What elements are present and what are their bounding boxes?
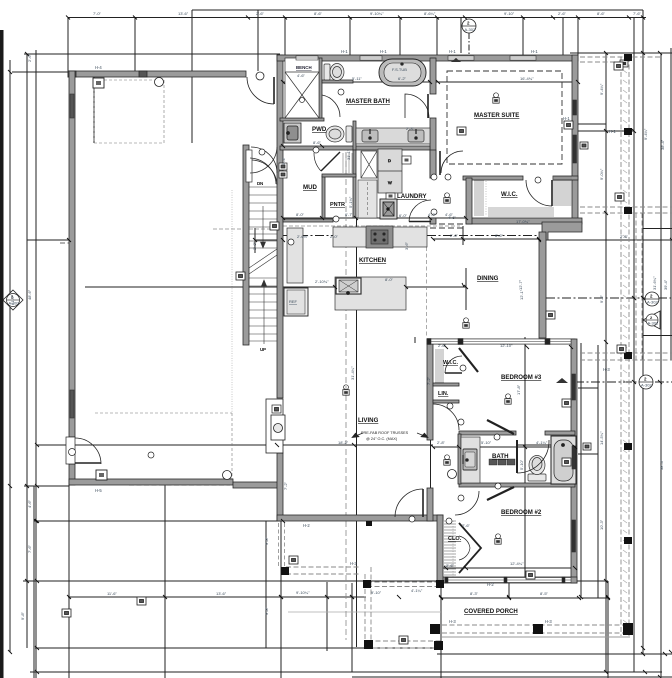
svg-text:9'-6": 9'-6": [599, 294, 604, 303]
svg-text:7'-6": 7'-6": [27, 544, 32, 553]
symbol fan dining: [463, 318, 469, 328]
wire kitchen dashed lines: [283, 225, 460, 227]
wall pntr left: [322, 176, 325, 218]
wall pntr top: [322, 174, 356, 177]
svg-text:H-1: H-1: [563, 116, 570, 121]
wall bedroom2 left / clo: [437, 515, 443, 583]
svg-text:DINING: DINING: [477, 275, 499, 282]
wall house top: [277, 55, 578, 61]
window top wall 2: [360, 56, 382, 60]
wall bath2 bottom: [459, 483, 575, 487]
door mud: [321, 152, 340, 171]
stairs break lines: [249, 249, 277, 268]
symbol fan bedroom2: [495, 534, 501, 544]
svg-text:H-3: H-3: [350, 561, 357, 566]
svg-text:7'-2": 7'-2": [283, 481, 288, 490]
svg-text:LIN.: LIN.: [438, 391, 449, 397]
svg-text:A-302: A-302: [641, 383, 652, 388]
svg-text:2'-6": 2'-6": [27, 53, 32, 62]
svg-text:BEDROOM #3: BEDROOM #3: [501, 374, 542, 381]
svg-text:H-2: H-2: [487, 582, 494, 587]
door stairs top 1: [251, 147, 277, 173]
wire living long line: [37, 444, 433, 446]
svg-text:2'-6": 2'-6": [256, 11, 265, 16]
svg-text:DN: DN: [257, 181, 263, 186]
svg-text:2'-0": 2'-0": [330, 234, 339, 239]
window bedroom2 south band: [447, 578, 571, 583]
svg-text:BENCH: BENCH: [296, 65, 312, 70]
wall lin top: [433, 383, 459, 386]
svg-text:H-1: H-1: [449, 49, 456, 54]
symbol posts bottom porch: [281, 54, 633, 650]
window msuite right wall: [573, 100, 577, 115]
svg-text:@ 24" O.C. (MAX): @ 24" O.C. (MAX): [366, 437, 398, 441]
svg-text:10'-3": 10'-3": [599, 519, 604, 530]
wall master suite right: [572, 55, 578, 226]
svg-text:17'-0¾": 17'-0¾": [516, 219, 530, 224]
window top wall 1: [296, 56, 318, 60]
svg-text:4'-1¼": 4'-1¼": [536, 440, 548, 445]
svg-text:H-1: H-1: [341, 49, 348, 54]
svg-text:4'-6": 4'-6": [448, 215, 457, 220]
svg-text:9'-8": 9'-8": [20, 611, 25, 620]
left page edge: [0, 30, 4, 678]
svg-text:5'-1¾": 5'-1¾": [348, 196, 353, 208]
symbol fan entry: [444, 193, 450, 203]
wall chamfer wic2: [459, 348, 478, 372]
svg-text:12'-10": 12'-10": [500, 343, 513, 348]
wall wic2 top: [427, 339, 461, 344]
fixture fridge: [284, 288, 308, 316]
svg-text:9'-0¼": 9'-0¼": [599, 168, 604, 180]
symbol circle garage top: [155, 78, 164, 87]
hatch wic1 left band: [474, 181, 484, 215]
wire bottom porch dashed band: [442, 624, 630, 626]
svg-text:2'-6": 2'-6": [462, 523, 471, 528]
svg-text:31'-1": 31'-1": [346, 149, 351, 160]
svg-text:H-1: H-1: [380, 49, 387, 54]
wall mbath/msuite divide: [430, 58, 436, 94]
svg-text:KITCHEN: KITCHEN: [359, 257, 386, 264]
fixture kitchen top counter: [333, 226, 427, 248]
svg-text:9'-10": 9'-10": [504, 11, 515, 16]
fixture mbath vanity: [356, 128, 430, 144]
svg-text:2'-6": 2'-6": [450, 233, 459, 238]
fixture bath2 tub: [551, 436, 576, 484]
svg-text:17'-8": 17'-8": [516, 384, 521, 395]
door bedroom3: [433, 404, 459, 430]
hatch porch right stipple: [623, 60, 627, 623]
svg-text:3'-6": 3'-6": [404, 241, 409, 250]
wire below-living dashed verticals: [278, 523, 280, 567]
stairs lower flight treads: [249, 278, 277, 341]
wire right center dashdot: [546, 297, 672, 299]
svg-text:7'-2": 7'-2": [426, 376, 431, 385]
svg-text:8'-6": 8'-6": [495, 233, 504, 238]
wire bottom mid verticals: [351, 583, 353, 672]
wire dashed opening kitchen-dining: [430, 223, 463, 225]
door msuite entry: [441, 151, 463, 173]
svg-text:UP: UP: [260, 347, 266, 352]
svg-text:W.I.C.: W.I.C.: [501, 191, 518, 198]
svg-text:MASTER BATH: MASTER BATH: [346, 98, 390, 105]
symbol right section markers: [645, 292, 659, 306]
svg-text:4'-6": 4'-6": [27, 499, 32, 508]
svg-text:9'-10¼": 9'-10¼": [370, 11, 384, 16]
wall garage bottom: [69, 479, 233, 485]
wall lin bottom: [433, 400, 459, 403]
tick left col: [8, 52, 39, 674]
wire master suite tray ceiling dashed: [447, 71, 562, 164]
window bedroom2 right wall: [572, 520, 576, 552]
wire kitchen dashdot: [283, 235, 539, 237]
wall toilet nook bottom: [322, 80, 353, 83]
svg-text:9'-4": 9'-4": [281, 156, 286, 165]
wall bath2 vanity side: [458, 434, 461, 484]
hatch wic2: [435, 350, 444, 382]
wire top center dashdot: [460, 18, 462, 54]
svg-text:39'-4": 39'-4": [663, 279, 668, 290]
svg-text:9'-4¼": 9'-4¼": [643, 128, 648, 140]
svg-text:BEDROOM #2: BEDROOM #2: [501, 509, 542, 516]
wall laundry right: [430, 150, 436, 178]
svg-text:REF: REF: [289, 299, 298, 304]
svg-text:13'-6": 13'-6": [178, 11, 189, 16]
wall pwd right: [353, 121, 356, 150]
wall wic1 left: [466, 178, 472, 224]
svg-text:H-4: H-4: [95, 65, 102, 70]
window garage left wall: [70, 94, 74, 118]
svg-text:A-302: A-302: [648, 321, 659, 326]
wire roof ridge dashed vertical: [345, 152, 347, 640]
hatch wic1 right shelves: [553, 177, 572, 205]
label pre-fab note: [361, 431, 409, 441]
svg-text:61'-7": 61'-7": [10, 294, 15, 305]
wall garage left upper: [69, 71, 75, 437]
svg-text:2'-8": 2'-8": [437, 440, 446, 445]
symbol fan bed3: [505, 394, 511, 404]
wall msuite south: [463, 176, 523, 180]
wire top extension verticals: [67, 18, 69, 72]
hatch mud lockers: [343, 153, 352, 173]
wire bottom-left dims: [33, 486, 35, 678]
window bedroom3 right wall: [572, 374, 576, 400]
wall chamfer bath sw: [487, 487, 514, 500]
wire left porch dashed: [286, 566, 360, 568]
wall hall/wic2 left: [427, 343, 433, 440]
svg-text:12'-4¼": 12'-4¼": [510, 561, 524, 566]
svg-text:CLO.: CLO.: [448, 536, 462, 542]
wire island dim line: [85, 286, 335, 288]
wall bath2 complex top: [459, 431, 516, 435]
wall bedroom2 bottom: [441, 577, 577, 583]
wall chamfer bath nw: [487, 420, 514, 434]
hatch wic1 bottom band: [489, 207, 553, 217]
svg-text:2'-6": 2'-6": [438, 343, 447, 348]
wire bedroom2 bottom dim: [441, 597, 581, 599]
door shower: [322, 95, 340, 117]
wire living bottom wall dashes: [290, 516, 440, 518]
wall living bottom: [277, 515, 443, 521]
window bath2 right wall: [572, 446, 576, 469]
door laundry: [409, 221, 431, 223]
svg-text:8'-6¼": 8'-6¼": [424, 11, 436, 16]
wall garage top: [68, 71, 246, 77]
wall wic bottom: [466, 218, 582, 224]
fixture pwd sink: [284, 123, 301, 143]
svg-text:13'-6": 13'-6": [216, 591, 227, 596]
svg-text:2'-3": 2'-3": [406, 126, 415, 131]
svg-text:2'-6½": 2'-6½": [297, 234, 309, 239]
svg-text:8'-6": 8'-6": [313, 140, 322, 145]
door mbath entry: [405, 94, 429, 118]
svg-text:31'-6¼": 31'-6¼": [652, 276, 657, 290]
symbol outlet squares small: [62, 62, 626, 644]
svg-text:H-2: H-2: [303, 523, 310, 528]
wire interior dim laundry row: [283, 217, 466, 219]
svg-text:6'-7": 6'-7": [345, 212, 354, 217]
fixture shower: [285, 58, 319, 118]
svg-text:8'-6": 8'-6": [597, 11, 606, 16]
svg-text:38'-4": 38'-4": [659, 459, 664, 470]
symbol outlet garage top: [93, 78, 104, 88]
svg-text:F.S.TUB: F.S.TUB: [392, 67, 407, 72]
svg-text:3'-0": 3'-0": [252, 241, 257, 250]
fixture pwd toilet: [326, 126, 352, 142]
svg-text:8'-0": 8'-0": [385, 277, 394, 282]
svg-text:H-3: H-3: [545, 619, 552, 624]
wall house left: [277, 55, 283, 398]
wire bedroom porch vertical band: [635, 213, 637, 360]
wall dining bottom / bedroom3 top: [427, 339, 575, 344]
svg-text:W.I.C.: W.I.C.: [443, 360, 458, 366]
stairs upper flight treads: [249, 187, 277, 248]
window dining south band: [430, 339, 571, 344]
symbol door tags circles: [69, 89, 542, 524]
svg-text:PRE-FAB ROOF TRUSSES: PRE-FAB ROOF TRUSSES: [361, 431, 409, 435]
symbol fan bedroom3: [343, 385, 349, 395]
fixture bath2 towels: [489, 459, 515, 465]
svg-text:11'-6": 11'-6": [107, 591, 117, 596]
door stair leaf: [246, 150, 252, 182]
svg-text:5'-10": 5'-10": [481, 440, 492, 445]
svg-text:H-3: H-3: [449, 619, 456, 624]
wire dashed opening living-kitchen left: [60, 242, 69, 244]
fixture fireplace living: [266, 399, 285, 453]
wire wic dim row: [433, 238, 539, 240]
wall stair left: [243, 145, 249, 345]
fixture island: [335, 277, 406, 310]
symbol roof vent triangle: [556, 378, 568, 383]
symbol outlet garage bottom: [96, 470, 107, 480]
wire right dim verticals: [605, 53, 607, 672]
wire kitchen-dining dashed boundary: [426, 247, 428, 337]
svg-text:38'-4": 38'-4": [660, 139, 665, 150]
svg-text:MUD: MUD: [303, 184, 317, 191]
wall dining right: [539, 232, 546, 338]
wire garage door opening dashes: [129, 481, 230, 483]
stairs down arrow: [262, 206, 264, 246]
svg-text:8'-5": 8'-5": [540, 591, 549, 596]
svg-text:PNTR: PNTR: [330, 202, 345, 208]
svg-text:8'-6": 8'-6": [314, 11, 323, 16]
fixture bath2 toilet: [528, 456, 546, 482]
svg-text:9'-4¼": 9'-4¼": [599, 83, 604, 95]
svg-text:MASTER SUITE: MASTER SUITE: [474, 112, 519, 119]
window top wall msuite 1: [448, 56, 474, 60]
svg-text:2'-10¾": 2'-10¾": [315, 279, 329, 284]
svg-text:9'-10": 9'-10": [371, 590, 382, 595]
fixture laundry sink: [380, 199, 397, 219]
svg-text:W: W: [388, 180, 392, 185]
fixture bath2 vanity: [461, 437, 480, 483]
wire bedroom right side verticals: [580, 343, 582, 598]
svg-text:COVERED PORCH: COVERED PORCH: [464, 608, 518, 615]
wall kitchen top: [283, 219, 333, 222]
wall pwd/mud divide: [280, 146, 430, 150]
svg-text:18'-2": 18'-2": [338, 440, 349, 445]
wire master suite interior line: [283, 81, 578, 83]
door garage side left: [75, 438, 101, 464]
wall bedroom right: [571, 339, 577, 583]
svg-text:2'-6": 2'-6": [558, 11, 567, 16]
svg-text:H-3: H-3: [603, 367, 610, 372]
wire vertical bedroom column: [524, 337, 526, 583]
wire right porch mid dashes: [580, 206, 672, 208]
svg-text:5'-10": 5'-10": [519, 459, 524, 470]
door bedroom2: [455, 491, 479, 515]
svg-text:4'-1¼": 4'-1¼": [411, 588, 423, 593]
tick bottom rows: [67, 595, 667, 674]
window top wall msuite 2: [510, 56, 536, 60]
door stair top arcs: [250, 147, 277, 173]
door msuite wic: [526, 180, 552, 206]
svg-text:14'-5¼": 14'-5¼": [599, 431, 604, 445]
fixture laundry cabinets: [358, 180, 377, 218]
door living bottom: [395, 489, 423, 517]
symbol fan laundry: [620, 60, 628, 67]
wire kitchen band dims: [255, 239, 283, 241]
wire vertical through kitchen/living: [356, 218, 358, 647]
svg-text:H-5: H-5: [95, 488, 102, 493]
fixture fs tub: [379, 59, 426, 86]
svg-text:9'-10¼": 9'-10¼": [296, 590, 310, 595]
svg-text:9'-8": 9'-8": [264, 536, 269, 545]
svg-text:7'-0": 7'-0": [93, 11, 102, 16]
wire top dim chain: [192, 9, 643, 11]
svg-text:H-1: H-1: [531, 49, 538, 54]
svg-text:D: D: [388, 158, 391, 163]
tick right col: [604, 51, 662, 678]
hatch clo shelves: [444, 521, 456, 575]
svg-text:2'-6": 2'-6": [446, 563, 455, 568]
svg-text:8'-0": 8'-0": [296, 212, 305, 217]
fixture laundry linen xbox: [361, 151, 377, 178]
door wic2: [445, 372, 462, 374]
wall garage left lower: [69, 464, 75, 485]
door garage entry top: [247, 77, 274, 104]
note arrows living: [352, 433, 428, 438]
fixture washer dryer: [378, 149, 402, 193]
symbol left section marker: [3, 290, 23, 310]
door clo bifold: [459, 523, 481, 573]
svg-text:LAUNDRY: LAUNDRY: [397, 193, 427, 200]
door stairs top 2: [252, 160, 277, 185]
svg-text:12'-7": 12'-7": [518, 279, 523, 290]
wall pwd top: [280, 118, 324, 121]
tick top row: [66, 16, 645, 20]
svg-text:PWD: PWD: [312, 126, 327, 133]
wall wic/porch corner: [542, 222, 582, 240]
svg-text:4'-0": 4'-0": [428, 212, 437, 217]
svg-text:LIVING: LIVING: [358, 417, 379, 424]
wall shower right: [319, 58, 322, 118]
svg-text:2'-6": 2'-6": [620, 234, 629, 239]
svg-text:16'-4¾": 16'-4¾": [520, 76, 534, 81]
svg-text:6'-2": 6'-2": [398, 76, 407, 81]
symbol fan hall: [444, 455, 450, 465]
symbol fan msuite: [493, 93, 499, 103]
symbol top section marker: [462, 19, 476, 33]
wire right porch top dashes: [580, 56, 662, 58]
svg-text:5'-11": 5'-11": [352, 76, 362, 81]
wire bath dim row: [433, 446, 459, 448]
svg-text:4'-6": 4'-6": [297, 73, 306, 78]
wire left dim verticals: [9, 60, 11, 652]
svg-text:H-1: H-1: [609, 129, 616, 134]
svg-text:31'-4¼": 31'-4¼": [350, 366, 355, 380]
svg-text:A-302: A-302: [465, 27, 476, 32]
fixture toilet mbath: [324, 64, 344, 81]
wall mud/laundry divide: [353, 150, 356, 218]
fixture kitchen left cabinets: [287, 228, 303, 283]
svg-text:8'-3": 8'-3": [470, 591, 479, 596]
stairs up arrow: [263, 282, 265, 344]
svg-text:48'-6": 48'-6": [27, 289, 32, 300]
wire right porch dashed band: [620, 57, 622, 636]
svg-text:9'-8": 9'-8": [264, 606, 269, 615]
wire garage ceiling dashed rect: [94, 80, 232, 482]
svg-text:7'-6": 7'-6": [633, 11, 642, 16]
door bath2: [517, 440, 549, 473]
svg-text:6'-0": 6'-0": [399, 213, 408, 218]
svg-text:BATH: BATH: [492, 453, 508, 460]
svg-text:A-302: A-302: [647, 300, 658, 305]
symbol circle garage bottom: [448, 470, 457, 479]
